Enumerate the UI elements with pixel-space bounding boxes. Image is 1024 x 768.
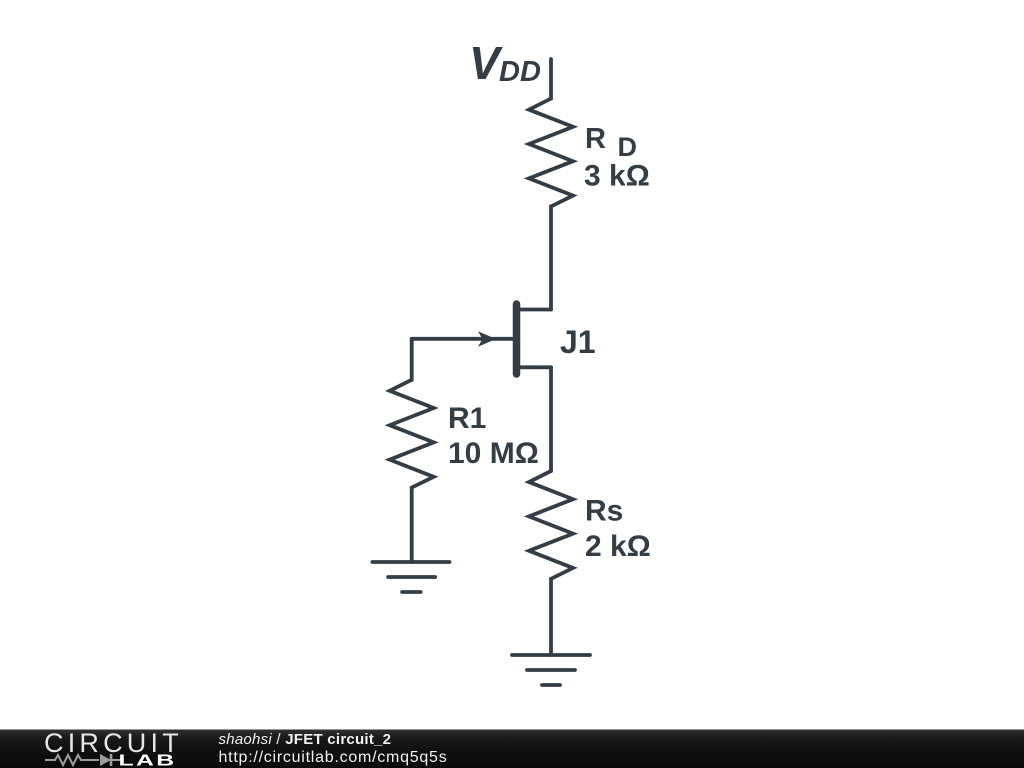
svg-text:R1: R1	[448, 402, 486, 435]
footer bar	[0, 728, 1024, 768]
ground symbol bottom (under Rs)	[512, 653, 590, 657]
svg-text:shaohsi / JFET circuit_2: shaohsi / JFET circuit_2	[219, 731, 392, 748]
ground symbol left (under R1)	[372, 560, 449, 564]
transistor J1 channel bar	[513, 304, 521, 374]
wire source stub of J1	[519, 365, 551, 369]
resistor RD 3k zigzag	[529, 99, 573, 207]
svg-text:3 kΩ: 3 kΩ	[584, 160, 650, 193]
svg-text:J1: J1	[560, 324, 596, 360]
wire RD to drain node	[549, 206, 553, 309]
wire VDD to RD	[549, 59, 553, 99]
wire source to Rs	[549, 367, 553, 471]
gate arrowhead	[478, 331, 496, 346]
wire Rs to ground	[549, 579, 553, 655]
svg-text:2 kΩ: 2 kΩ	[585, 530, 651, 563]
logo resistor-diode glyph	[45, 755, 122, 765]
wire gate of J1	[412, 337, 513, 341]
wire drain stub of J1	[519, 308, 551, 312]
svg-text:V: V	[469, 37, 503, 89]
svg-text:D: D	[618, 132, 638, 162]
svg-text:DD: DD	[499, 56, 541, 88]
resistor R1 10M zigzag	[390, 380, 434, 488]
wire R1 to ground	[410, 488, 414, 562]
svg-text:10 MΩ: 10 MΩ	[448, 437, 539, 470]
svg-text:http://circuitlab.com/cmq5q5s: http://circuitlab.com/cmq5q5s	[219, 749, 448, 766]
wire gate down to R1	[410, 339, 414, 380]
resistor Rs 2k zigzag	[529, 471, 573, 579]
svg-text:LAB: LAB	[119, 752, 177, 768]
svg-text:Rs: Rs	[585, 495, 623, 528]
svg-text:R: R	[585, 123, 606, 155]
